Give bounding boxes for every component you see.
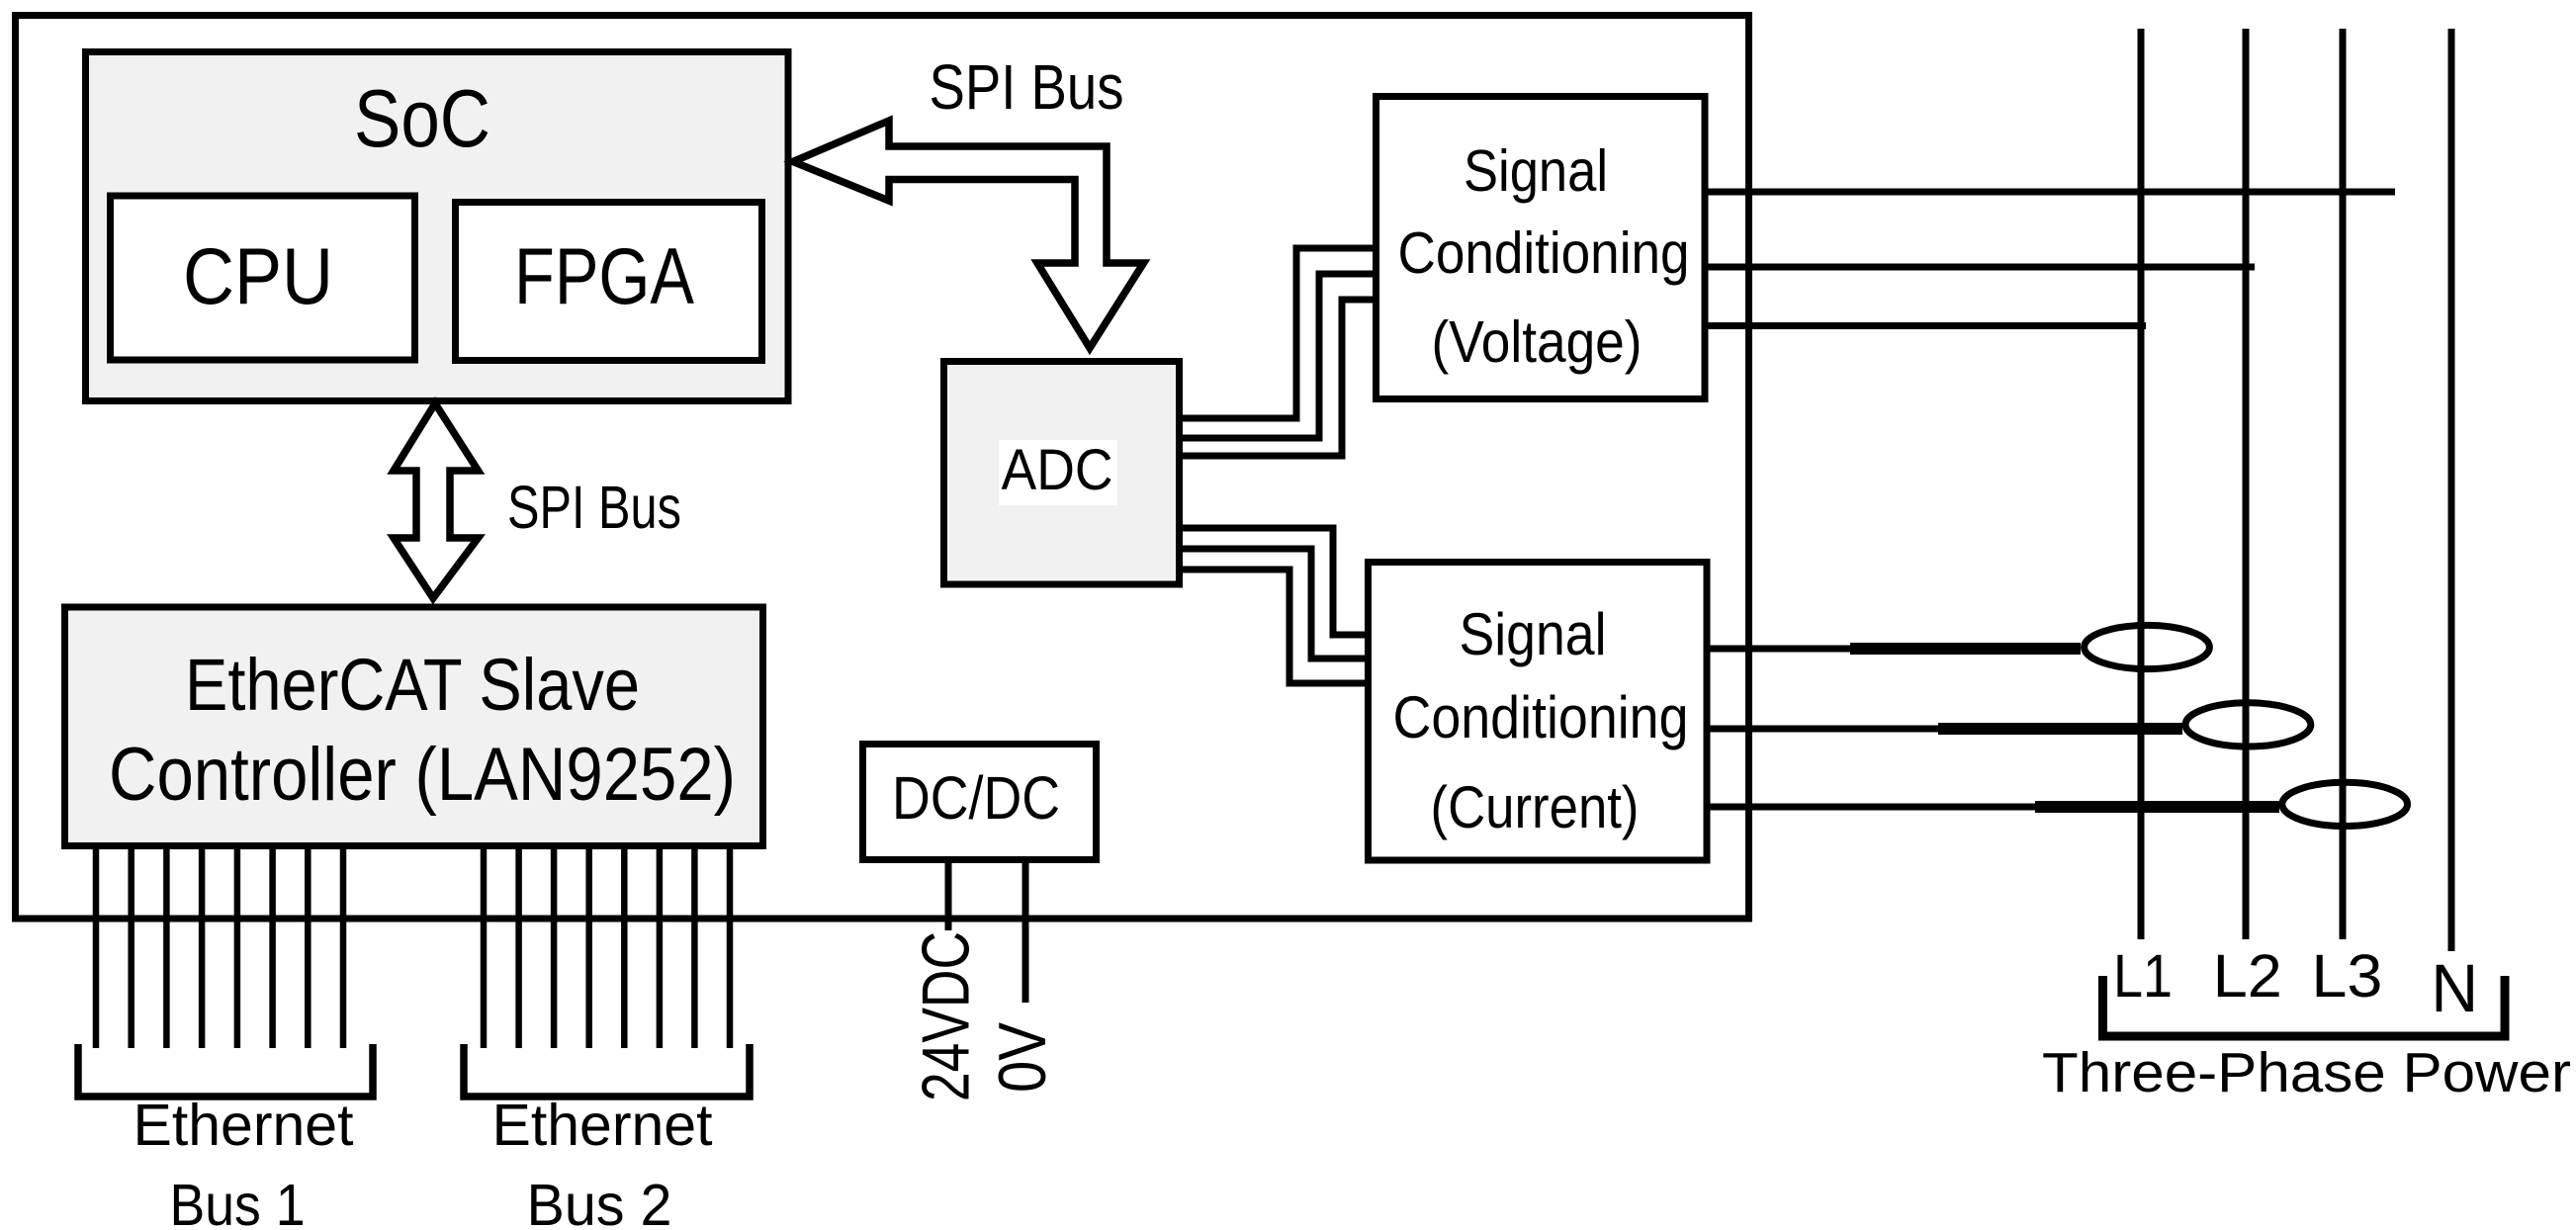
wire DC/DC input 0V [1022,860,1029,1004]
block DC/DC [863,745,1097,860]
svg-text:Bus 2: Bus 2 [527,1173,672,1230]
board outline (main PCB rectangle) [16,16,1749,920]
svg-text:SoC: SoC [354,72,490,164]
svg-text:Signal: Signal [1464,138,1608,204]
svg-text:L2: L2 [2213,942,2282,1010]
svg-text:ADC: ADC [1002,438,1113,502]
wire ADC to voltage conditioning ch2 [1179,274,1373,438]
wire ADC to voltage conditioning ch3 [1179,300,1373,456]
block ADC [944,362,1180,585]
svg-text:N: N [2431,950,2478,1026]
svg-text:Controller (LAN9252): Controller (LAN9252) [109,733,736,817]
wire voltage sense to L1 [1709,322,2147,329]
three-phase bracket [2103,976,2506,1036]
wire DC/DC input 24VDC [945,860,952,931]
svg-text:Bus 1: Bus 1 [170,1173,306,1230]
phase line N [2448,29,2455,951]
phase line L3 [2340,29,2347,939]
svg-text:DC/DC: DC/DC [892,764,1060,832]
bus arrow SPI (SoC to EtherCAT, double-headed vertical) [394,403,479,598]
block SoC [86,52,789,401]
phase line L2 [2243,29,2250,939]
svg-text:(Current): (Current) [1431,774,1640,840]
svg-text:Ethernet: Ethernet [133,1093,354,1158]
wire current sense ch1 (thin) [1710,646,1854,653]
wire current sense ch2 (thick lead) [1938,723,2182,735]
svg-text:Three-Phase Power: Three-Phase Power [2042,1041,2571,1104]
svg-text:FPGA: FPGA [514,232,694,321]
block Signal Conditioning (Voltage) [1377,97,1706,399]
wire ADC to voltage conditioning ch1 [1179,248,1373,418]
wire voltage sense to L3 [1709,189,2396,196]
block CPU [111,196,415,360]
phase line L1 [2138,29,2145,939]
block FPGA [456,203,762,361]
svg-text:0V: 0V [985,1021,1060,1093]
ethernet bus 2 bracket [464,1044,750,1097]
wire ADC to current conditioning ch2 [1179,549,1369,659]
svg-text:Conditioning: Conditioning [1393,684,1689,750]
svg-text:L1: L1 [2113,942,2173,1010]
current transformer CT3 on L3 [2282,782,2408,826]
wire current sense ch1 (thick lead) [1850,643,2081,655]
svg-text:EtherCAT Slave: EtherCAT Slave [185,644,640,726]
svg-text:Signal: Signal [1460,601,1607,667]
wire voltage sense to L2 [1709,264,2256,271]
wire current sense ch3 (thick lead) [2035,801,2279,813]
block Signal Conditioning (Current) [1369,563,1708,861]
block EtherCAT Slave Controller (LAN9252) [65,607,763,846]
bus arrow SPI (ADC to SoC, bent double-headed) [793,121,1144,348]
wire current sense ch2 (thin) [1710,726,1942,733]
wire ADC to current conditioning ch3 [1179,570,1369,683]
svg-text:(Voltage): (Voltage) [1432,309,1643,375]
wire ADC to current conditioning ch1 [1179,528,1369,635]
current transformer CT2 on L2 [2185,703,2311,747]
svg-text:SPI Bus: SPI Bus [507,474,681,541]
ethernet bus 1 pins [96,846,343,1049]
ethernet bus 2 pins [484,846,730,1049]
wire current sense ch3 (thin) [1710,804,2039,811]
label ADC highlight patch [999,440,1117,505]
ethernet bus 1 bracket [78,1044,373,1097]
svg-text:SPI Bus: SPI Bus [930,51,1124,123]
svg-text:L3: L3 [2311,942,2382,1010]
svg-text:CPU: CPU [183,232,333,321]
svg-text:24VDC: 24VDC [909,931,984,1101]
current transformer CT1 on L1 [2085,625,2210,668]
svg-text:Ethernet: Ethernet [492,1093,713,1158]
svg-text:Conditioning: Conditioning [1398,220,1690,286]
